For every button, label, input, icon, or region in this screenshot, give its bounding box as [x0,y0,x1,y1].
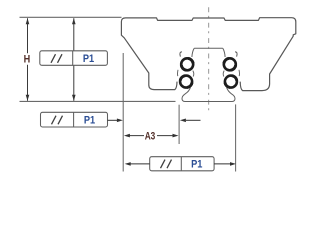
arrow box3 right [230,162,236,166]
frame box3 outline [150,157,214,171]
feature control frame box3 [150,157,214,171]
svg-text:H: H [24,54,31,66]
wire bottom reference line [20,100,176,102]
block groove hook top-left [180,52,182,57]
dimension A3 left segment [128,135,144,137]
svg-text:A3: A3 [145,131,156,143]
rail flank wisp right [223,71,224,77]
parallelism symbol box1 [51,54,56,63]
arrow H bottom [26,95,30,101]
arrow A3 right [173,134,179,138]
ball B2 bottom-left [180,76,192,88]
dimension A3 right segment [157,135,174,137]
block ridge wisp left [176,70,179,76]
svg-text:P1: P1 [83,53,94,65]
extension line block side face [122,53,124,172]
frame box2 outline [41,112,108,127]
arrow P1-line bottom [72,95,76,101]
block ridge wisp right [238,70,241,76]
feature control frame box2 [41,112,108,127]
parallelism symbol box3 [161,160,166,169]
contact lump B4 lower-left [225,83,230,88]
contact lump B2 upper-left [180,76,185,81]
arrow H top [26,18,30,24]
block outline [121,18,295,91]
datum leader at rail face [186,119,201,121]
arrow P1-line top [72,18,76,24]
frame box2 divider [73,112,75,127]
ball B1 top-left [181,58,193,70]
svg-text:P1: P1 [84,115,95,127]
contact lump B4 upper-right [232,76,237,81]
contact lump B3 upper-left [224,58,229,63]
contact lump B3 lower-right [231,65,236,70]
frame box3 divider [180,157,182,171]
frame box1 divider [72,51,74,66]
arrow A3 left [124,134,130,138]
block groove hook top-right [235,52,237,57]
centerline [208,7,210,115]
rail flank wisp left [193,71,194,77]
ball B3 top-right [224,58,236,70]
arrow box3 left [125,162,131,166]
parallelism symbol box2 [52,116,57,125]
contact lump B1 upper-right [188,58,193,63]
contact lump B2 lower-right [187,83,192,88]
rail [182,48,235,101]
arrow box2 leader [117,119,123,123]
frame box1 outline [40,51,108,66]
ball B4 bottom-right [225,76,237,88]
arrow datum leader [180,119,186,123]
wire top extension line [20,16,122,18]
dimension line P1 vertical [73,18,75,101]
svg-text:P1: P1 [191,159,202,171]
extension line rail right face [235,104,237,171]
leader box3 left [131,163,150,165]
contact lump B1 lower-left [181,65,186,70]
leader box2 to block side face [108,119,118,121]
dimension line H [27,18,29,53]
extension line rail left face [178,105,180,144]
leader box3 right [214,163,230,165]
feature control frame box1 [40,51,108,66]
